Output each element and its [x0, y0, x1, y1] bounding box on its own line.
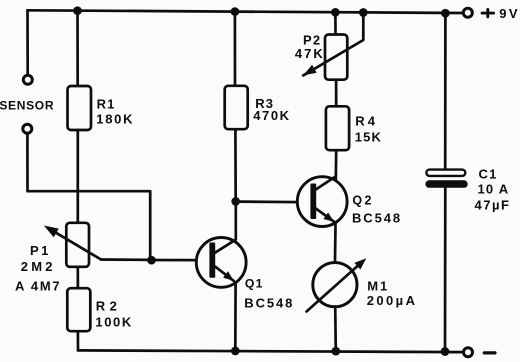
svg-text:9V: 9V — [499, 6, 520, 21]
wire M1 to bottom rail — [334, 306, 337, 351]
svg-text:100K: 100K — [95, 314, 132, 329]
svg-text:M1: M1 — [367, 279, 389, 294]
svg-text:2M2: 2M2 — [21, 259, 56, 274]
wire node to Q1 base — [152, 259, 210, 262]
svg-text:A 4M7: A 4M7 — [15, 279, 61, 294]
wire C1 to bottom rail — [444, 188, 447, 352]
junction rail-P2 — [331, 8, 340, 17]
junction rail-P2 wiper — [359, 8, 368, 17]
junction M1 rail — [331, 347, 340, 356]
wire Q2 emitter to M1 — [334, 223, 337, 262]
svg-text:SENSOR: SENSOR — [0, 99, 54, 113]
resistor R2 — [67, 288, 90, 331]
resistor R3 — [225, 86, 248, 129]
wire rail to P2 — [334, 13, 337, 35]
svg-text:470K: 470K — [253, 108, 290, 123]
svg-text:15K: 15K — [355, 130, 382, 145]
wire P1 to R2 — [76, 267, 79, 288]
junction wiper node — [147, 256, 156, 265]
svg-text:10 A: 10 A — [478, 182, 510, 197]
junction rail-R1 — [73, 6, 82, 15]
terminal sensor bottom — [23, 124, 32, 133]
svg-text:R2: R2 — [96, 299, 121, 314]
wire Q1 emitter to rail — [234, 284, 237, 351]
wire rail to R1 — [76, 11, 79, 87]
wire left drop to sensor top — [26, 10, 29, 74]
junction rail-R3 — [231, 7, 240, 16]
wire R2 to bottom rail — [77, 331, 80, 350]
wire P2 wiper from rail — [303, 13, 363, 75]
junction C1 rail — [441, 347, 450, 356]
svg-text:47µF: 47µF — [475, 197, 511, 212]
svg-text:R1: R1 — [97, 97, 116, 112]
resistor R4 — [326, 106, 349, 150]
transistor Q2 base bar — [310, 184, 316, 220]
wire bottom rail — [78, 350, 463, 352]
terminal +9V — [463, 8, 472, 17]
meter M1 arrow line — [307, 263, 361, 312]
svg-text:R4: R4 — [355, 114, 378, 129]
terminal sensor top — [23, 75, 32, 84]
capacitor C1 top plate — [426, 170, 465, 176]
transistor Q1 collector — [215, 201, 236, 253]
wire top rail +9V — [28, 10, 464, 13]
arrowhead Q1 emitter — [223, 271, 234, 281]
arrowhead P2 — [303, 65, 317, 76]
svg-text:200µA: 200µA — [367, 293, 418, 308]
capacitor C1 bottom plate — [425, 180, 467, 188]
junction Q1 emitter rail — [231, 347, 240, 356]
svg-text:BC548: BC548 — [352, 210, 402, 225]
wire P1 wiper diagonal — [50, 229, 101, 259]
svg-text:BC548: BC548 — [244, 296, 294, 311]
wire rail to R3 — [234, 12, 237, 87]
wire rail to C1 — [444, 14, 447, 169]
svg-text:47K: 47K — [295, 46, 325, 61]
svg-text:180K: 180K — [96, 112, 134, 127]
minus sign — [484, 351, 495, 354]
wire wiper to base node — [101, 258, 152, 261]
svg-text:P1: P1 — [30, 243, 51, 258]
junction rail-C1 — [441, 9, 450, 18]
resistor R1 — [68, 86, 92, 130]
wire collector node to Q2 base — [236, 200, 311, 203]
wire P2 to R4 — [335, 80, 338, 107]
potentiometer P2 — [325, 35, 347, 80]
meter M1 circle — [313, 263, 357, 307]
wire R1 to P1 — [76, 130, 79, 223]
transistor Q2 circle — [297, 177, 347, 227]
terminal minus — [464, 348, 473, 357]
arrowhead Q2 emitter — [323, 213, 334, 222]
svg-text:C1: C1 — [479, 166, 498, 181]
wire R4 to Q2 collector — [334, 150, 337, 180]
potentiometer P1 — [66, 223, 89, 267]
arrowhead P1 — [44, 226, 59, 238]
label +9V plus sign — [482, 10, 494, 17]
transistor Q1 circle — [196, 238, 246, 288]
junction collector node — [231, 197, 240, 206]
transistor Q1 base bar — [209, 243, 215, 278]
svg-text:Q1: Q1 — [245, 276, 264, 290]
transistor Q1 emitter — [215, 266, 234, 281]
transistor Q2 emitter — [316, 209, 334, 222]
wire sensor bottom to P1 wiper node — [27, 134, 150, 260]
svg-text:Q2: Q2 — [352, 194, 373, 208]
wire R3 to collector node — [234, 129, 237, 201]
transistor Q2 collector — [316, 176, 336, 189]
arrowhead M1 — [354, 258, 366, 269]
